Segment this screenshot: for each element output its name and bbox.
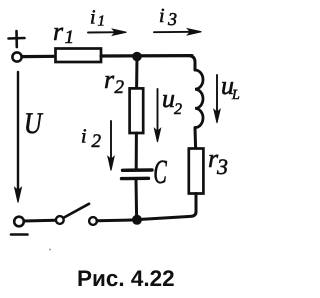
terminal T2 negative: [14, 217, 24, 227]
voltage arrow uL: [214, 75, 239, 123]
voltage arrow U: [15, 72, 43, 203]
caption: [79, 270, 174, 286]
wire node A down to r2: [135, 57, 138, 88]
resistor r3: [189, 149, 227, 194]
wire capacitor to node B: [135, 180, 139, 217]
terminal T1 positive: [12, 52, 21, 61]
current arrow i3: [154, 9, 202, 35]
wire r2 to capacitor: [135, 133, 138, 169]
wire coil to r3: [194, 128, 198, 148]
wire terminal to switch: [24, 219, 56, 223]
wire top-right corner down: [188, 56, 195, 70]
current arrow i2: [82, 121, 114, 171]
minus sign: [11, 233, 28, 236]
capacitor C: [122, 161, 167, 184]
current arrow i1: [88, 10, 127, 35]
wire top-middle: [101, 54, 192, 58]
inductor L coil: [195, 70, 203, 128]
node A junction: [132, 52, 142, 62]
node B junction: [132, 215, 142, 225]
switch S throw contact: [89, 217, 97, 225]
voltage arrow u2: [154, 89, 181, 142]
wire bottom-right corner: [141, 194, 196, 220]
resistor r1: [54, 28, 101, 62]
speck artifact: [49, 249, 51, 251]
switch S pole contact: [56, 216, 64, 224]
terminal polarity plus sign: [9, 31, 25, 47]
resistor r2: [105, 76, 143, 133]
wire top-left: [22, 55, 55, 58]
wire switch to node B: [97, 219, 133, 223]
switch S blade: [64, 204, 89, 218]
